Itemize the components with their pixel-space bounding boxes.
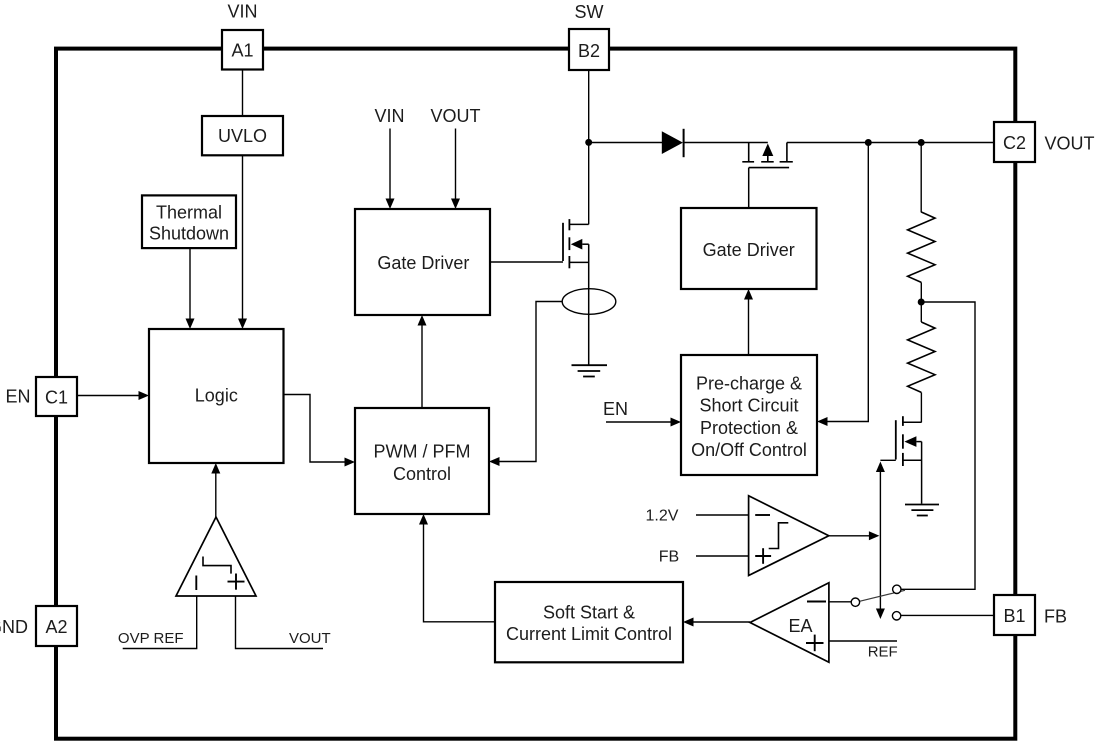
wire OVP comparator to Logic [215, 473, 217, 517]
svg-text:VOUT: VOUT [1044, 134, 1094, 154]
wire FB NMOS gate lead [880, 459, 895, 461]
arrowhead Pre-charge to Gate Driver [744, 289, 753, 300]
svg-text:Control: Control [393, 464, 451, 484]
block PWM / PFM Control [355, 408, 489, 514]
wire divider tap to switch contact [901, 302, 975, 589]
wire R1 to divider tap [920, 282, 922, 322]
arrowhead VOUT into Gate Driver [451, 199, 460, 210]
wire diode to PMOS [684, 142, 768, 144]
svg-text:Gate Driver: Gate Driver [377, 253, 469, 273]
arrowhead Soft Start to PWM [419, 514, 428, 525]
arrowhead comparator output [869, 531, 880, 540]
node VOUT rail junction 2 [918, 139, 925, 146]
arrowhead OVP to Logic [211, 463, 220, 474]
switch contact bottom [892, 612, 900, 620]
svg-text:REF: REF [868, 644, 898, 661]
wire EA minus to switch common [829, 601, 851, 603]
svg-text:VOUT: VOUT [430, 106, 480, 126]
wire current sense to PWM/PFM [499, 302, 563, 462]
arrowhead UVLO to Logic [238, 319, 247, 330]
svg-text:FB: FB [659, 549, 679, 566]
node divider tap [918, 299, 925, 306]
wire Thermal Shutdown to Logic [189, 248, 191, 319]
node VOUT rail junction 1 [865, 139, 872, 146]
block Pre-charge Short Circuit Protection On/Off Control [681, 355, 817, 475]
wire OVP VOUT input [236, 596, 324, 649]
svg-text:VIN: VIN [227, 2, 257, 22]
svg-text:Gate Driver: Gate Driver [703, 240, 795, 260]
arrowhead VIN into Gate Driver [386, 199, 395, 210]
wire VOUT into left Gate Driver [455, 129, 457, 200]
svg-text:Pre-charge &: Pre-charge & [696, 374, 802, 394]
resistor R1 [908, 212, 935, 282]
wire comparator output [829, 535, 869, 537]
ground under Q3 [905, 505, 939, 516]
svg-text:C2: C2 [1003, 133, 1026, 153]
svg-text:Shutdown: Shutdown [149, 224, 229, 244]
switch contact top [893, 585, 901, 593]
arrowhead EN to Pre-charge [671, 418, 682, 427]
arrowhead sense to PWM [489, 457, 500, 466]
svg-text:EN: EN [603, 399, 628, 419]
svg-text:VIN: VIN [374, 106, 404, 126]
block Gate Driver left [355, 209, 490, 315]
switch blade [859, 590, 905, 601]
block Gate Driver right [681, 208, 817, 289]
wire UVLO to Logic [242, 155, 244, 319]
wire EA to Soft Start [693, 621, 750, 623]
arrowhead C1 to Logic [139, 391, 150, 400]
wire A1 to UVLO [242, 70, 244, 117]
svg-text:Logic: Logic [195, 386, 238, 406]
transistor Q1 main switch NMOS [563, 219, 589, 364]
current sense sensor [562, 289, 616, 315]
arrowhead Thermal to Logic [186, 319, 195, 330]
wire VIN into left Gate Driver [389, 129, 391, 200]
wire Pre-charge to right Gate Driver [748, 299, 750, 355]
block Soft Start and Current Limit Control [495, 582, 683, 662]
arrowhead Logic to PWM [345, 458, 356, 467]
arrowhead control line up [876, 462, 885, 473]
svg-text:GND: GND [0, 617, 28, 637]
arrowhead rail to Pre-charge [817, 417, 828, 426]
svg-text:Soft Start &: Soft Start & [543, 603, 635, 623]
wire Soft Start to PWM/PFM [424, 524, 496, 622]
arrowhead EA to Soft Start [683, 618, 694, 627]
node SW junction [585, 139, 592, 146]
pin C1 [36, 377, 77, 416]
svg-text:SW: SW [575, 2, 604, 22]
wire switch to B1 FB pin [901, 614, 994, 616]
transistor Q3 FB disconnect NMOS [896, 416, 922, 504]
switch common contact [851, 598, 859, 606]
pin B1 [994, 595, 1035, 635]
svg-text:B2: B2 [578, 41, 600, 61]
svg-text:UVLO: UVLO [218, 126, 267, 146]
block UVLO [202, 116, 283, 155]
svg-text:1.2V: 1.2V [646, 508, 679, 525]
svg-text:PWM / PFM: PWM / PFM [374, 442, 471, 462]
svg-text:FB: FB [1044, 607, 1067, 627]
pin A2 [36, 606, 77, 646]
wire comparator control line [879, 470, 881, 610]
pin B2 [569, 29, 609, 70]
op-amp OVP comparator [176, 517, 256, 596]
wire Q2 gate to right Gate Driver [748, 168, 750, 208]
svg-text:Protection &: Protection & [700, 418, 798, 438]
svg-text:Current Limit Control: Current Limit Control [506, 624, 672, 644]
svg-text:OVP REF: OVP REF [118, 630, 184, 647]
svg-text:On/Off Control: On/Off Control [691, 440, 807, 460]
pin C2 [994, 122, 1035, 162]
wire EA plus REF [829, 640, 897, 642]
svg-text:EN: EN [5, 387, 30, 407]
wire VOUT rail down to Pre-charge [827, 143, 868, 422]
svg-text:C1: C1 [45, 388, 68, 408]
wire Logic to PWM/PFM [283, 395, 345, 463]
wire PMOS to C2 VOUT rail [787, 142, 994, 144]
wire OVP REF input [123, 596, 197, 649]
svg-text:VOUT: VOUT [289, 630, 331, 647]
arrowhead control line down [876, 609, 885, 620]
wire VOUT rail to R1 [920, 143, 922, 213]
resistor R2 [908, 322, 935, 392]
wire FB label to comparator [696, 555, 749, 557]
wire 1.2V label to comparator [696, 514, 749, 516]
ground under Q1 [572, 365, 608, 376]
diode D1 [662, 129, 684, 157]
svg-text:B1: B1 [1003, 606, 1025, 626]
svg-text:EA: EA [788, 616, 812, 636]
wire SW node to diode [589, 142, 662, 144]
arrowhead PWM to Gate Driver [418, 315, 427, 326]
pin A1 [222, 30, 263, 70]
wire R2 to FB NMOS drain [920, 392, 922, 422]
block Thermal Shutdown [142, 195, 236, 248]
wire EN to Pre-charge [606, 421, 671, 423]
wire PWM/PFM to left Gate Driver [421, 325, 423, 408]
transistor Q2 PMOS isolation FET [742, 143, 793, 168]
wire left Gate Driver to NMOS gate [490, 261, 563, 263]
svg-text:Short Circuit: Short Circuit [699, 396, 798, 416]
op-amp 1.2V comparator [749, 496, 829, 576]
wire C1 to Logic [77, 395, 139, 397]
svg-text:A2: A2 [45, 617, 67, 637]
svg-text:Thermal: Thermal [156, 203, 222, 223]
block Logic [149, 329, 284, 463]
wire B2 stem to SW node and NMOS drain [588, 70, 590, 224]
op-amp EA error amplifier [750, 583, 829, 663]
svg-text:A1: A1 [231, 41, 253, 61]
